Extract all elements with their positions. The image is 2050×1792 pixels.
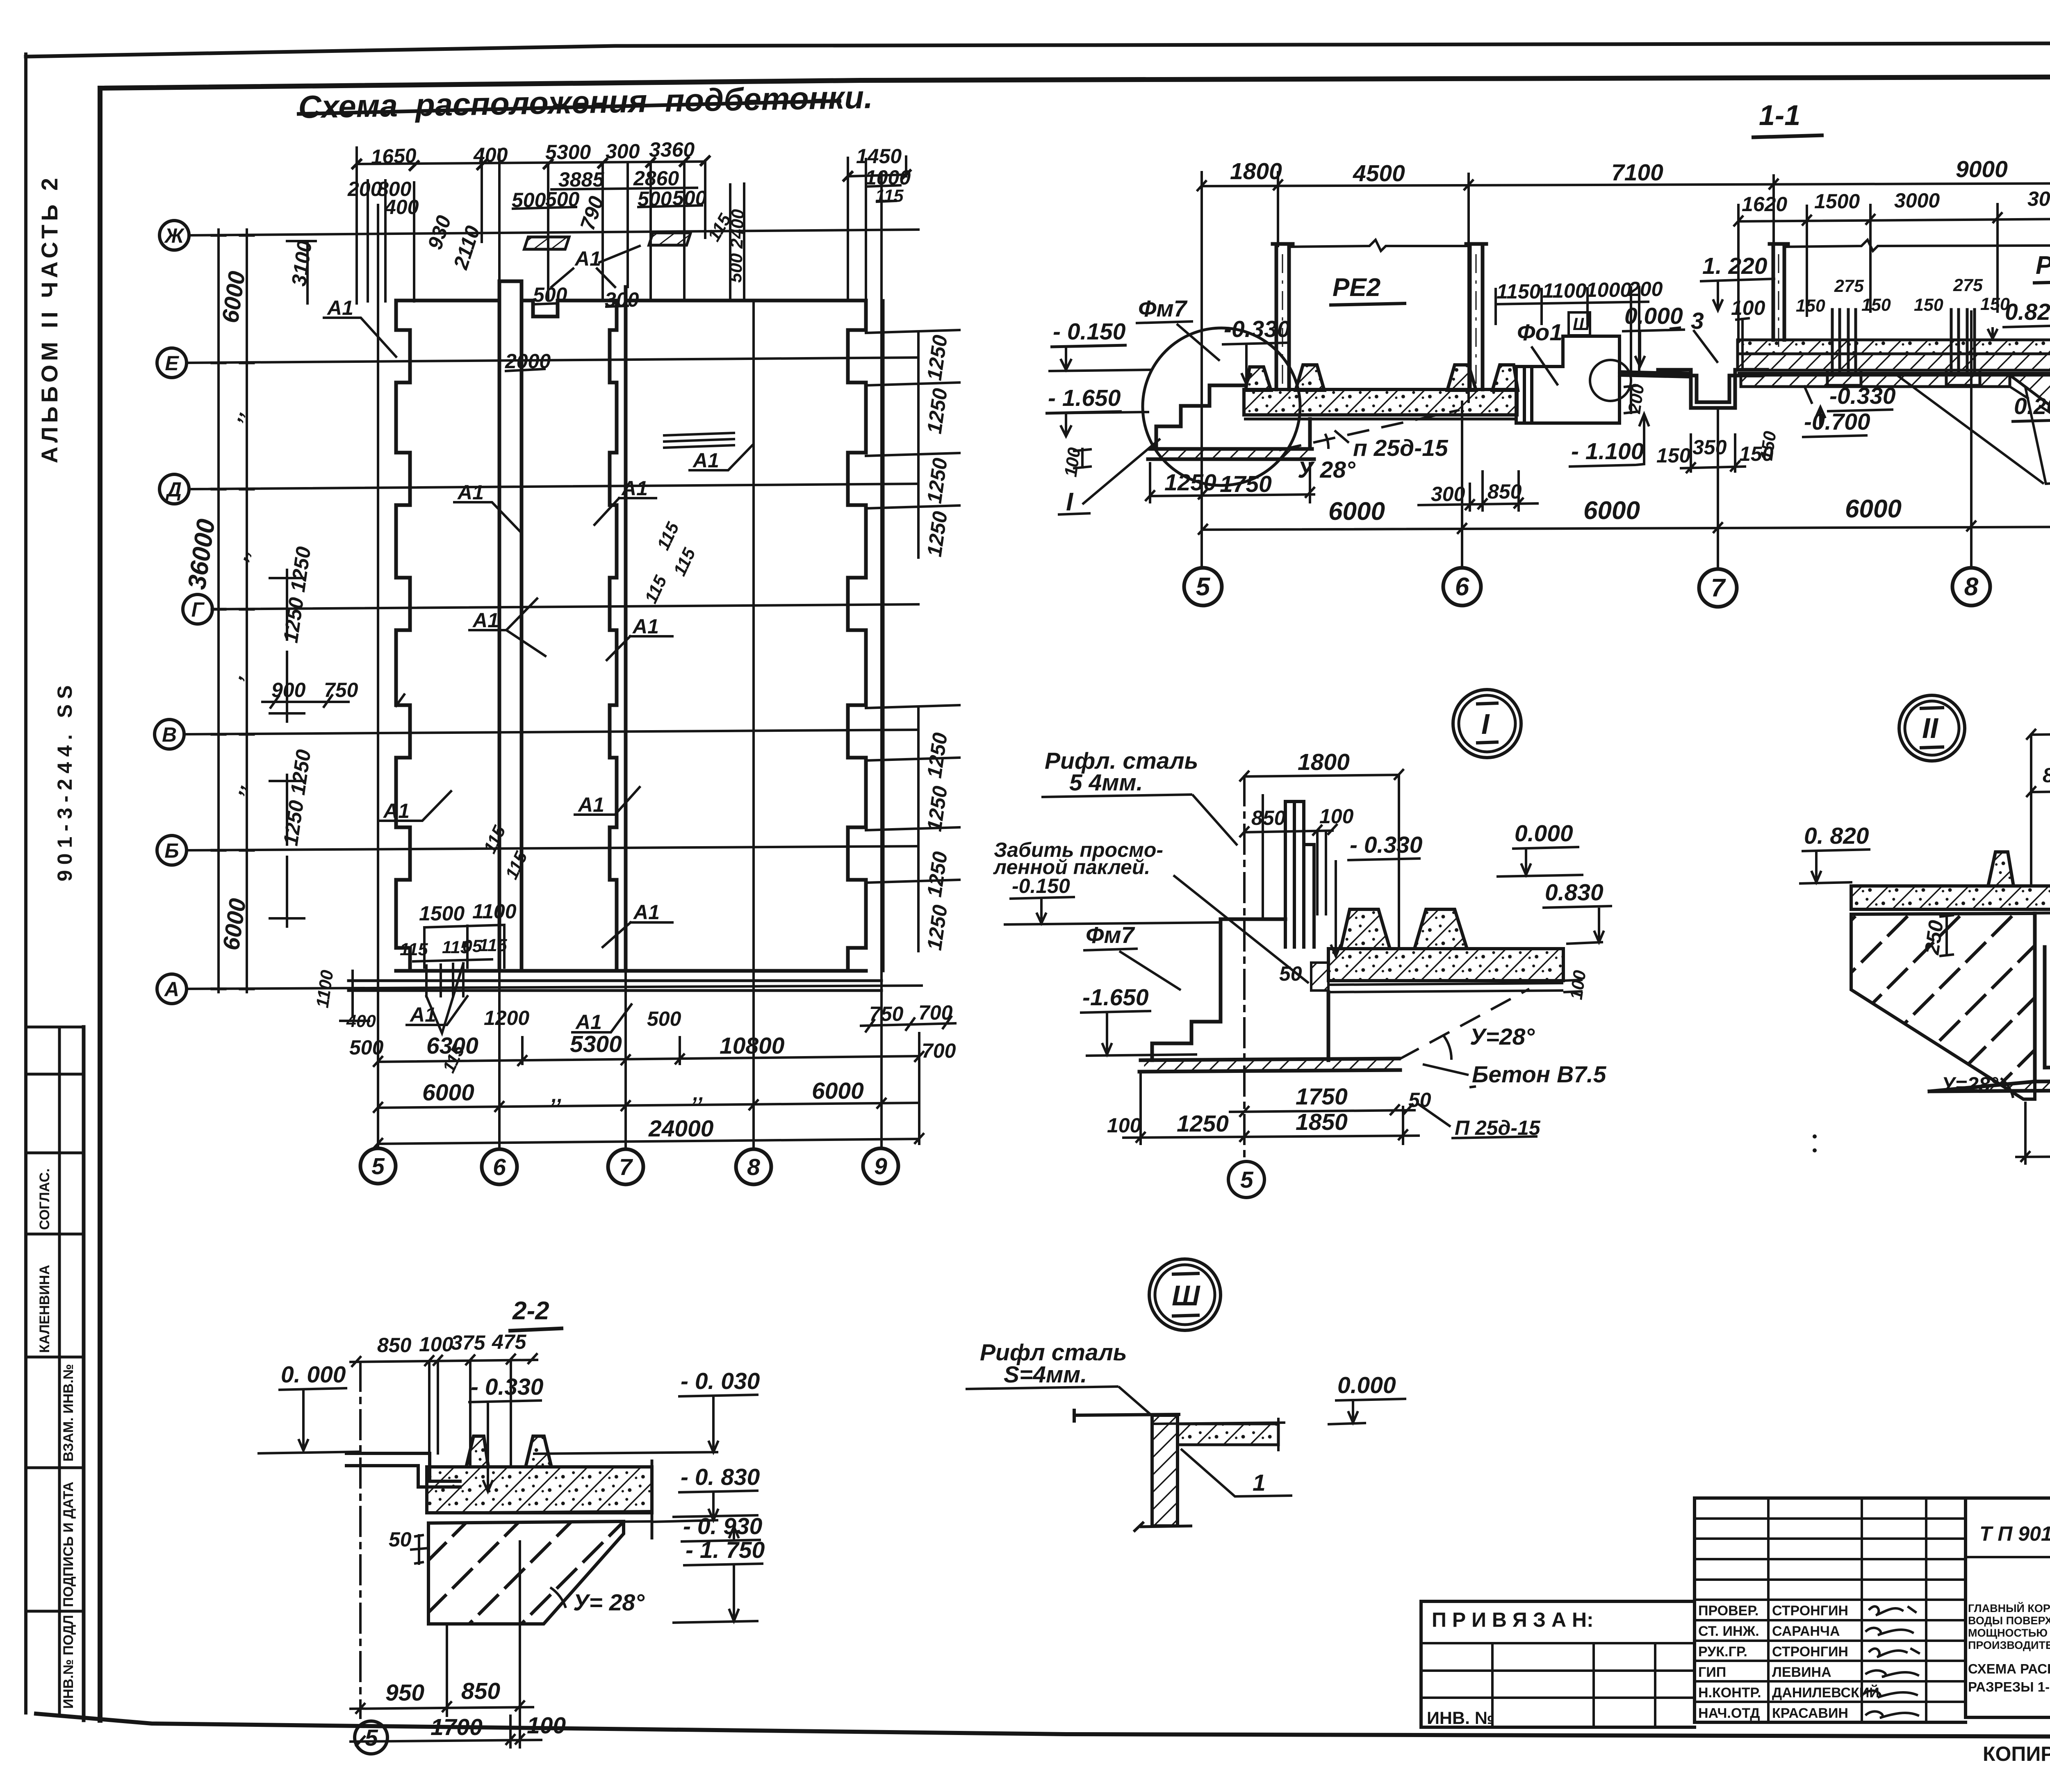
svg-text:1. 220: 1. 220 xyxy=(1702,253,1768,279)
svg-text:850: 850 xyxy=(1487,480,1522,503)
svg-text:100: 100 xyxy=(1061,446,1084,478)
svg-text:100: 100 xyxy=(419,1333,453,1356)
svg-text:СХЕМА РАСПОЛОЖЕНИЯ ПОДБЕТОНКИ: СХЕМА РАСПОЛОЖЕНИЯ ПОДБЕТОНКИ xyxy=(1968,1661,2050,1676)
svg-text:Бетон В7.5: Бетон В7.5 xyxy=(1472,1061,1607,1088)
svg-text:-1.650: -1.650 xyxy=(1082,984,1149,1011)
svg-text:6000: 6000 xyxy=(1583,496,1640,525)
svg-text:7: 7 xyxy=(1711,574,1726,602)
svg-text:- 1.650: - 1.650 xyxy=(1048,385,1121,411)
svg-text:200: 200 xyxy=(347,178,382,200)
svg-text:Г: Г xyxy=(191,598,205,621)
svg-text:Е: Е xyxy=(165,352,179,375)
svg-text:3: 3 xyxy=(1691,308,1704,334)
svg-text:100: 100 xyxy=(1566,969,1590,1001)
svg-text:1000: 1000 xyxy=(1586,278,1631,301)
svg-text:-0.700: -0.700 xyxy=(1804,409,1870,435)
svg-text:А1: А1 xyxy=(409,1003,436,1026)
svg-text:0. 820: 0. 820 xyxy=(1804,823,1869,849)
svg-text:275: 275 xyxy=(1953,276,1983,295)
svg-text:300: 300 xyxy=(605,288,639,311)
svg-text:8: 8 xyxy=(1964,573,1979,601)
svg-text:6000: 6000 xyxy=(1328,497,1385,526)
svg-text:СТРОНГИН: СТРОНГИН xyxy=(1772,1603,1848,1619)
svg-text:6000: 6000 xyxy=(422,1079,474,1106)
svg-text:5: 5 xyxy=(1240,1167,1254,1193)
svg-text:150: 150 xyxy=(1796,296,1825,316)
svg-text:ГЛАВНЫЙ КОРПУС ДЛЯ СТАНЦИИ ОЧИ: ГЛАВНЫЙ КОРПУС ДЛЯ СТАНЦИИ ОЧИСТКИ xyxy=(1968,1602,2050,1614)
svg-text:8: 8 xyxy=(747,1154,760,1180)
svg-text:п 25д-15: п 25д-15 xyxy=(1353,435,1449,461)
svg-text:0.820: 0.820 xyxy=(2005,299,2050,325)
svg-text:500: 500 xyxy=(545,188,580,211)
svg-text:1: 1 xyxy=(1253,1470,1266,1496)
svg-text:1150: 1150 xyxy=(1496,280,1541,303)
svg-text:Д: Д xyxy=(165,478,182,501)
svg-text:- 1.100: - 1.100 xyxy=(1571,438,1644,465)
svg-text:Н.КОНТР.: Н.КОНТР. xyxy=(1698,1685,1761,1701)
svg-text:250: 250 xyxy=(1920,919,1947,956)
svg-text:1-1: 1-1 xyxy=(1759,99,1800,131)
svg-text:750: 750 xyxy=(869,1002,904,1025)
svg-text:200: 200 xyxy=(1628,278,1663,301)
svg-text:У= 28°: У= 28° xyxy=(573,1589,645,1616)
svg-text:ПРОИЗВОДИТЕЛЬНОСТЬЮ 12,5 ТЫС М: ПРОИЗВОДИТЕЛЬНОСТЬЮ 12,5 ТЫС М3/СУТ. xyxy=(1968,1639,2050,1651)
svg-text:1650: 1650 xyxy=(370,144,417,168)
svg-text:4500: 4500 xyxy=(1353,160,1405,187)
svg-text:I: I xyxy=(1066,488,1074,516)
svg-text:МОЩНОСТЬЮ ДО 1500 МГ/Д: МОЩНОСТЬЮ ДО 1500 МГ/Д xyxy=(1968,1627,2050,1639)
svg-text:7: 7 xyxy=(619,1154,633,1180)
svg-text:- 0. 830: - 0. 830 xyxy=(681,1464,760,1490)
svg-text:50: 50 xyxy=(389,1528,412,1551)
svg-text:0.000: 0.000 xyxy=(1515,820,1573,847)
svg-text:А1: А1 xyxy=(621,477,648,500)
svg-text:1750: 1750 xyxy=(1220,471,1272,497)
svg-text:9000: 9000 xyxy=(1956,156,2008,182)
svg-text:9: 9 xyxy=(874,1153,887,1179)
svg-text:1250: 1250 xyxy=(1177,1111,1229,1137)
svg-text:У=28°: У=28° xyxy=(1941,1073,1999,1096)
svg-text:Ш: Ш xyxy=(1172,1280,1200,1312)
svg-text:901-3-244. SS: 901-3-244. SS xyxy=(53,680,76,881)
svg-text:- 1. 750: - 1. 750 xyxy=(686,1537,765,1563)
svg-text:ЛЕВИНА: ЛЕВИНА xyxy=(1772,1664,1831,1680)
svg-text:0. 000: 0. 000 xyxy=(281,1362,346,1388)
svg-text:0.000: 0.000 xyxy=(1337,1372,1396,1398)
svg-text:3000: 3000 xyxy=(1894,189,1940,212)
svg-text:1500: 1500 xyxy=(419,902,465,925)
svg-text:1250: 1250 xyxy=(1164,469,1216,496)
svg-text:400: 400 xyxy=(384,196,419,219)
svg-text:А1: А1 xyxy=(457,481,484,504)
svg-text:А1: А1 xyxy=(692,449,719,472)
svg-text:24000: 24000 xyxy=(648,1116,714,1142)
svg-text:У 28°: У 28° xyxy=(1298,457,1356,483)
svg-text:1620: 1620 xyxy=(1742,193,1787,216)
svg-text:,,: ,, xyxy=(692,1082,704,1105)
svg-text:I: I xyxy=(1481,708,1490,740)
svg-text:50: 50 xyxy=(1408,1088,1431,1111)
svg-text:1800: 1800 xyxy=(1230,158,1282,184)
svg-text:3360: 3360 xyxy=(649,138,695,161)
svg-text:1800: 1800 xyxy=(1298,749,1350,775)
svg-text:САРАНЧА: САРАНЧА xyxy=(1772,1624,1840,1639)
svg-text:СОГЛАС.: СОГЛАС. xyxy=(37,1168,52,1230)
svg-text:300: 300 xyxy=(606,140,640,163)
svg-text:5 4мм.: 5 4мм. xyxy=(1069,770,1143,796)
svg-text:- 0.150: - 0.150 xyxy=(1053,319,1126,345)
svg-text:500: 500 xyxy=(512,189,546,212)
svg-text:ПОДПИСЬ И ДАТА: ПОДПИСЬ И ДАТА xyxy=(61,1482,76,1607)
svg-text:950: 950 xyxy=(385,1680,424,1706)
svg-text:150: 150 xyxy=(1756,430,1780,462)
svg-text:КРАСАВИН: КРАСАВИН xyxy=(1772,1705,1848,1721)
svg-text:100: 100 xyxy=(1107,1114,1141,1137)
svg-text:В: В xyxy=(162,723,177,746)
svg-text:150: 150 xyxy=(1861,295,1891,315)
svg-text:3000: 3000 xyxy=(2027,187,2050,210)
svg-text:150: 150 xyxy=(1656,444,1691,467)
svg-text:850: 850 xyxy=(1251,806,1286,829)
svg-text:5: 5 xyxy=(1196,573,1211,601)
svg-text:Б: Б xyxy=(164,839,179,862)
svg-text:10800: 10800 xyxy=(720,1033,785,1059)
svg-text:6000: 6000 xyxy=(812,1078,864,1104)
svg-text:Фо1: Фо1 xyxy=(1517,319,1563,346)
svg-text:275: 275 xyxy=(1834,276,1864,296)
svg-text:А1: А1 xyxy=(383,799,410,822)
svg-text:Т П 901-3-244. 88: Т П 901-3-244. 88 xyxy=(1979,1522,2050,1545)
svg-text:ИНВ.№ ПОДЛ: ИНВ.№ ПОДЛ xyxy=(61,1615,76,1709)
svg-text:Фм7: Фм7 xyxy=(1138,296,1188,322)
svg-text:850: 850 xyxy=(377,1334,412,1357)
svg-text:А1: А1 xyxy=(574,247,601,270)
svg-text:-0.330: -0.330 xyxy=(1224,316,1290,342)
svg-text:500: 500 xyxy=(672,187,707,209)
svg-text:А1: А1 xyxy=(472,609,499,632)
svg-text:НАЧ.ОТД: НАЧ.ОТД xyxy=(1698,1705,1760,1721)
svg-text:А1: А1 xyxy=(632,615,659,638)
svg-text:- 0. 030: - 0. 030 xyxy=(681,1368,760,1394)
svg-text:5300: 5300 xyxy=(570,1031,622,1057)
svg-text:А1: А1 xyxy=(326,296,353,319)
svg-text:РАЗРЕЗЫ 1-1÷2-2. УЗЛЫ !- Ш .: РАЗРЕЗЫ 1-1÷2-2. УЗЛЫ !- Ш . xyxy=(1968,1679,2050,1694)
svg-text:7100: 7100 xyxy=(1611,159,1663,186)
svg-text:5: 5 xyxy=(371,1153,385,1179)
svg-text:1100: 1100 xyxy=(472,900,517,923)
svg-text:2000: 2000 xyxy=(505,350,551,373)
svg-text:1700: 1700 xyxy=(430,1714,483,1740)
svg-text:1850: 1850 xyxy=(1296,1109,1348,1135)
svg-text:6000: 6000 xyxy=(1845,495,1902,523)
svg-text:100: 100 xyxy=(527,1712,566,1739)
svg-text:1100: 1100 xyxy=(1542,279,1587,302)
svg-text:ВЗАМ. ИНВ.№: ВЗАМ. ИНВ.№ xyxy=(61,1364,76,1462)
svg-text:400: 400 xyxy=(473,143,508,166)
svg-text:6: 6 xyxy=(1455,573,1469,601)
svg-text:-0.150: -0.150 xyxy=(1012,874,1070,897)
svg-text:6300: 6300 xyxy=(426,1033,478,1059)
svg-text:РУК.ГР.: РУК.ГР. xyxy=(1698,1644,1747,1660)
svg-text:- 0.330: - 0.330 xyxy=(471,1374,544,1400)
svg-text:2-2: 2-2 xyxy=(512,1297,549,1325)
svg-text:СТРОНГИН: СТРОНГИН xyxy=(1772,1644,1848,1660)
svg-text:Фм7: Фм7 xyxy=(1086,922,1135,948)
svg-text:50: 50 xyxy=(1279,962,1302,985)
svg-text:S=4мм.: S=4мм. xyxy=(1004,1362,1087,1388)
svg-text:6: 6 xyxy=(493,1154,506,1180)
svg-text:А1: А1 xyxy=(575,1011,602,1034)
svg-text:ДАНИЛЕВСКИЙ: ДАНИЛЕВСКИЙ xyxy=(1772,1685,1879,1701)
svg-text:350: 350 xyxy=(1692,436,1727,459)
svg-text:АЛЬБОМ II ЧАСТЬ 2: АЛЬБОМ II ЧАСТЬ 2 xyxy=(36,174,62,463)
svg-text:300: 300 xyxy=(1431,483,1465,505)
svg-text:500: 500 xyxy=(647,1007,681,1030)
svg-text:5300: 5300 xyxy=(545,141,591,164)
svg-text:100: 100 xyxy=(1731,296,1765,319)
svg-text:Ж: Ж xyxy=(164,224,185,247)
svg-text:1500: 1500 xyxy=(1814,190,1860,213)
svg-text:РЕ1: РЕ1 xyxy=(2036,251,2050,280)
svg-text:- 0.330: - 0.330 xyxy=(1350,832,1423,858)
svg-text:ИНВ. №: ИНВ. № xyxy=(1427,1708,1494,1728)
svg-text:850: 850 xyxy=(2043,764,2050,787)
svg-text:500: 500 xyxy=(638,187,672,210)
svg-text:5: 5 xyxy=(365,1725,378,1751)
svg-text:ВОДЫ ПОВЕРХНОСТНЫХ ИСТОЧНИКОВ: ВОДЫ ПОВЕРХНОСТНЫХ ИСТОЧНИКОВ xyxy=(1968,1614,2050,1627)
svg-text:0.000: 0.000 xyxy=(1624,303,1683,329)
svg-text:1750: 1750 xyxy=(1296,1084,1348,1110)
svg-text:850: 850 xyxy=(461,1678,500,1704)
svg-text:115: 115 xyxy=(875,186,904,206)
svg-text:А1: А1 xyxy=(577,793,604,816)
svg-text:А: А xyxy=(164,978,179,1001)
svg-text:475: 475 xyxy=(492,1330,527,1353)
svg-text:ГИП: ГИП xyxy=(1698,1664,1726,1680)
svg-text:КОПИРОВАЛ: ЛОГИНОВА: КОПИРОВАЛ: ЛОГИНОВА xyxy=(1983,1742,2050,1765)
svg-text:1000: 1000 xyxy=(865,166,911,189)
svg-text:П Р И В Я З А Н:: П Р И В Я З А Н: xyxy=(1432,1608,1594,1631)
svg-text:375: 375 xyxy=(451,1331,486,1354)
svg-text:А1: А1 xyxy=(633,901,660,924)
svg-text:500: 500 xyxy=(349,1036,384,1059)
svg-text:СТ. ИНЖ.: СТ. ИНЖ. xyxy=(1698,1624,1759,1639)
svg-text:У=28°: У=28° xyxy=(1470,1024,1535,1050)
svg-text:,,: ,, xyxy=(551,1084,563,1107)
svg-text:1450: 1450 xyxy=(856,145,902,168)
svg-text:0.830: 0.830 xyxy=(1545,879,1604,906)
svg-text:150: 150 xyxy=(1914,295,1943,315)
svg-text:1200: 1200 xyxy=(484,1006,529,1029)
svg-text:II: II xyxy=(1922,712,1938,744)
svg-text:КАЛЕНВИНА: КАЛЕНВИНА xyxy=(37,1265,52,1353)
svg-text:ПРОВЕР.: ПРОВЕР. xyxy=(1698,1603,1758,1619)
svg-text:РЕ2: РЕ2 xyxy=(1332,273,1380,302)
svg-text:700: 700 xyxy=(922,1039,956,1062)
